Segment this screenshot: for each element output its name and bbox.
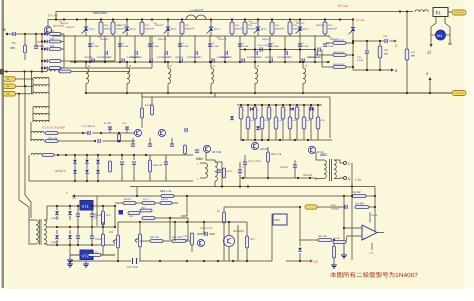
svg-text:6.8 10: 6.8 10 [161, 198, 168, 201]
svg-text:R17 1.1k: R17 1.1k [88, 251, 98, 254]
svg-text:680: 680 [384, 53, 389, 56]
svg-text:R4x KD/1TF: R4x KD/1TF [333, 63, 345, 66]
svg-text:+2F: +2F [369, 252, 374, 255]
svg-text:R5: R5 [59, 67, 63, 70]
svg-text:0.1uF: 0.1uF [357, 59, 363, 62]
svg-text:1.2 x 5% kx: 1.2 x 5% kx [82, 125, 96, 128]
svg-text:R4x KD/1TF: R4x KD/1TF [333, 39, 345, 42]
svg-text:xKD/1TF: xKD/1TF [248, 28, 258, 31]
svg-text:C3x 2.2uF: C3x 2.2uF [258, 44, 269, 47]
svg-text:2.2uF: 2.2uF [273, 45, 280, 48]
svg-text:3DG180: 3DG180 [233, 229, 244, 233]
svg-text:1.2K: 1.2K [306, 119, 311, 122]
svg-text:本图所有二极管型号为1N4007: 本图所有二极管型号为1N4007 [330, 271, 419, 279]
svg-text:3CTx: 3CTx [303, 28, 310, 31]
svg-text:560: 560 [50, 37, 55, 40]
svg-text:C13 0.47uF: C13 0.47uF [248, 160, 262, 163]
svg-text:1N4007: 1N4007 [51, 217, 59, 220]
svg-text:0.47uF/560BV: 0.47uF/560BV [187, 56, 202, 59]
svg-text:1.7K: 1.7K [355, 178, 362, 182]
svg-text:C1.xF: C1.xF [371, 214, 378, 217]
svg-text:2.2uF: 2.2uF [123, 45, 130, 48]
svg-text:680: 680 [411, 55, 416, 58]
svg-text:2KD/1TF: 2KD/1TF [158, 38, 167, 41]
svg-text:C2? 75uF: C2? 75uF [127, 266, 138, 269]
svg-text:A: A [88, 64, 90, 68]
svg-text:2KD/1TF: 2KD/1TF [265, 56, 274, 59]
svg-text:0.01u: 0.01u [226, 170, 233, 173]
svg-text:1.2K: 1.2K [250, 119, 255, 122]
svg-text:1.2K: 1.2K [278, 119, 283, 122]
svg-text:R2x 10k: R2x 10k [150, 236, 160, 239]
svg-text:2KD/1TF: 2KD/1TF [130, 56, 139, 59]
svg-text:0.47uF/560BV: 0.47uF/560BV [247, 56, 262, 59]
svg-text:CY xxx: CY xxx [338, 4, 348, 8]
svg-text:MB1: MB1 [196, 157, 203, 161]
svg-text:2KD/1TF: 2KD/1TF [118, 24, 127, 27]
svg-text:100: 100 [129, 215, 134, 218]
svg-text:R9 1.1K: R9 1.1K [153, 164, 163, 167]
svg-text:2KD/1TF: 2KD/1TF [84, 56, 93, 59]
svg-text:xKD/1TF: xKD/1TF [275, 28, 285, 31]
svg-text:0.1uF: 0.1uF [37, 44, 44, 48]
svg-text:6.8 10: 6.8 10 [124, 198, 131, 201]
svg-text:43x 56F: 43x 56F [355, 203, 365, 206]
svg-text:1.2K: 1.2K [320, 119, 325, 122]
svg-text:2.2uF: 2.2uF [93, 45, 100, 48]
svg-text:R11 4.7k: R11 4.7k [271, 153, 282, 156]
svg-text:2KD/1TF: 2KD/1TF [66, 26, 75, 29]
svg-text:0.47uF/560BV: 0.47uF/560BV [277, 56, 292, 59]
svg-text:2.2uF: 2.2uF [328, 45, 335, 48]
svg-text:xKD/1TF: xKD/1TF [185, 28, 195, 31]
svg-text:W: W [217, 209, 220, 213]
svg-text:1.2K: 1.2K [292, 119, 297, 122]
svg-text:R2x: R2x [250, 238, 255, 241]
svg-text:3CTx: 3CTx [89, 28, 96, 31]
svg-text:2.2uF: 2.2uF [303, 45, 310, 48]
svg-text:1.2K: 1.2K [264, 119, 269, 122]
svg-text:+: + [363, 237, 365, 241]
svg-text:RB1 1.1k: RB1 1.1k [160, 190, 172, 193]
svg-text:4CC2F: 4CC2F [260, 148, 269, 151]
svg-text:3DG1x: 3DG1x [280, 166, 289, 169]
svg-text:2KD/1TF: 2KD/1TF [308, 56, 317, 59]
svg-text:B: B [129, 64, 131, 68]
svg-text:3CTx: 3CTx [171, 28, 178, 31]
svg-text:43x 56F: 43x 56F [352, 191, 362, 194]
svg-text:2.2uF: 2.2uF [213, 45, 220, 48]
svg-text:2KD/1TF: 2KD/1TF [316, 24, 325, 27]
svg-text:xKD/1TF: xKD/1TF [145, 28, 155, 31]
svg-text:REL: REL [275, 218, 281, 222]
svg-text:xxx 1k: xxx 1k [333, 237, 341, 240]
svg-text:B: B [257, 64, 259, 68]
svg-text:3CTx: 3CTx [214, 28, 221, 31]
svg-text:150: 150 [141, 207, 146, 210]
svg-text:C1x: C1x [331, 203, 337, 207]
svg-text:FL: FL [436, 11, 442, 17]
svg-text:500v/560V: 500v/560V [93, 11, 107, 15]
svg-text:C: C [395, 44, 398, 48]
svg-text:R4x KD/1TF: R4x KD/1TF [333, 51, 345, 54]
svg-text:2.2uF: 2.2uF [153, 45, 160, 48]
svg-text:xx +7: xx +7 [143, 198, 149, 201]
svg-text:xKD/1TF: xKD/1TF [328, 28, 338, 31]
svg-text:1F: 1F [314, 260, 318, 264]
svg-text:L1 xKD/1TF: L1 xKD/1TF [190, 9, 204, 12]
svg-text:xKD/1TF: xKD/1TF [293, 28, 303, 31]
svg-text:CY xxx: CY xxx [356, 19, 365, 22]
svg-text:2.2uF: 2.2uF [183, 45, 190, 48]
svg-text:1000uF: 1000uF [331, 208, 340, 211]
svg-text:CY xxx: CY xxx [48, 14, 58, 18]
svg-text:R1x: R1x [106, 214, 111, 217]
svg-text:M4: M4 [437, 34, 442, 38]
svg-text:A: A [3, 27, 6, 32]
svg-text:4x 760: 4x 760 [104, 122, 112, 125]
svg-text:2KD/1TF: 2KD/1TF [175, 56, 184, 59]
svg-text:3C1975: 3C1975 [55, 169, 66, 173]
svg-text:MB2: MB2 [320, 153, 327, 157]
svg-text:560: 560 [10, 46, 15, 50]
svg-text:560: 560 [50, 30, 55, 33]
svg-text:W1: W1 [109, 230, 114, 234]
svg-text:0.47uF/560BV: 0.47uF/560BV [157, 56, 172, 59]
svg-text:0.1-0.2 6.3*U CAP: 0.1-0.2 6.3*U CAP [42, 126, 65, 130]
svg-text:0': 0' [426, 72, 429, 76]
svg-text:3CT1B: 3CT1B [212, 150, 221, 154]
svg-text:2KD/1TF: 2KD/1TF [220, 56, 229, 59]
svg-text:3CTx: 3CTx [261, 28, 268, 31]
svg-text:2KD/1TF: 2KD/1TF [262, 38, 271, 41]
svg-text:R1: R1 [12, 41, 16, 45]
svg-text:R2x 10k: R2x 10k [318, 235, 328, 238]
svg-text:A: A [213, 64, 215, 68]
svg-text:0.47uF/560BV: 0.47uF/560BV [97, 56, 112, 59]
svg-text:C2x 0.47uF: C2x 0.47uF [200, 227, 213, 230]
svg-text:2SC194: 2SC194 [303, 174, 313, 177]
svg-text:R8 4k: R8 4k [145, 104, 152, 107]
svg-text:C: C [242, 166, 244, 169]
svg-text:2.2uF: 2.2uF [243, 45, 250, 48]
svg-text:3CTx: 3CTx [130, 28, 137, 31]
svg-text:560: 560 [50, 45, 55, 48]
svg-text:xKD/1TF: xKD/1TF [116, 28, 126, 31]
svg-text:VT1: VT1 [82, 204, 90, 209]
svg-text:750 x 5%: 750 x 5% [48, 137, 58, 140]
svg-text:1N4007: 1N4007 [51, 241, 59, 244]
svg-text:R2x 100k: R2x 100k [172, 236, 183, 239]
